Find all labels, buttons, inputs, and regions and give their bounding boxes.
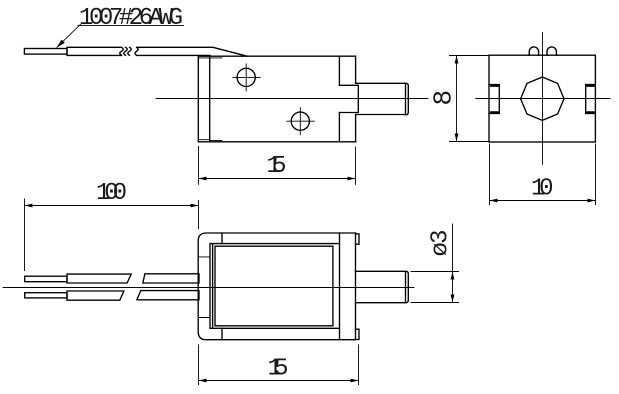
svg-text:15: 15: [267, 153, 287, 180]
svg-text:15: 15: [268, 356, 289, 383]
svg-text:1007#26AWG: 1007#26AWG: [79, 5, 183, 32]
svg-text:10: 10: [531, 175, 554, 202]
svg-text:ø3: ø3: [428, 230, 455, 257]
svg-text:8: 8: [429, 90, 459, 106]
svg-text:100: 100: [96, 180, 127, 207]
